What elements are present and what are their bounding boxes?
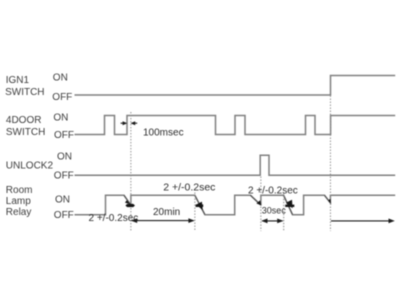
UNLOCK waveform: single pulse at x=260 [75, 155, 396, 175]
Room Lamp Relay waveform with fade-out ramps [75, 195, 396, 214]
20min measurement double arrow [131, 218, 195, 223]
svg-text:SWITCH: SWITCH [6, 127, 45, 138]
fade arrowhead 3 (lamp dim before unlock) [256, 200, 261, 205]
svg-text:OFF: OFF [52, 92, 72, 103]
svg-text:OFF: OFF [54, 210, 74, 221]
svg-text:UNLOCK2: UNLOCK2 [6, 161, 54, 172]
fade arrowhead 2 (lamp dim after 20min) [196, 202, 203, 211]
svg-text:2 +/-0.2sec: 2 +/-0.2sec [89, 213, 139, 224]
svg-text:Room: Room [6, 185, 33, 196]
fade arrowhead 5 (lamp dim cancelled by IGN1) [328, 199, 331, 204]
fade arrowhead 4 (lamp dim after 30sec) [286, 200, 293, 209]
4DOOR waveform: pulses and steps [75, 116, 396, 135]
svg-text:Relay: Relay [6, 207, 32, 218]
svg-text:ON: ON [55, 194, 70, 205]
svg-text:ON: ON [53, 72, 68, 83]
svg-text:2 +/-0.2sec: 2 +/-0.2sec [163, 182, 215, 194]
svg-text:OFF: OFF [54, 170, 74, 181]
dotted reference line at unlock (x=260.8) [260, 177, 262, 232]
svg-text:20min: 20min [153, 207, 180, 218]
continuation time arrow (bottom right) [331, 219, 395, 224]
svg-text:SWITCH: SWITCH [5, 87, 44, 98]
svg-text:Lamp: Lamp [6, 196, 31, 207]
signal label 4DOOR SWITCH [6, 115, 45, 138]
svg-text:ON: ON [57, 152, 72, 163]
100msec measurement arrows (4DOOR row) [121, 121, 138, 125]
svg-text:ON: ON [53, 113, 68, 124]
svg-text:IGN1: IGN1 [6, 75, 30, 86]
svg-text:100msec: 100msec [143, 128, 184, 139]
svg-text:2 +/-0.2sec: 2 +/-0.2sec [248, 185, 298, 196]
30sec measurement double arrow [261, 219, 283, 224]
dotted reference line at door-close+100msec (x=130.8) [130, 112, 132, 231]
fade ramp overlays (darker annotation diagonals) [124, 195, 330, 214]
signal label Room Lamp Relay [6, 185, 33, 218]
dotted reference line at IGN1 on (x=330.4) [329, 96, 331, 232]
fade arrowhead 1 (lamp dim at first door close, meeting arrows at dotted line) [125, 204, 135, 207]
IGN1 waveform: OFF until x=330.5 then ON [75, 76, 396, 96]
svg-text:OFF: OFF [54, 130, 74, 141]
dotted reference line at 20min end (x=194.8) [194, 193, 196, 232]
dotted reference line at 30sec end (x=283.7) [283, 193, 285, 231]
signal label IGN1 SWITCH [5, 75, 44, 98]
svg-text:4DOOR: 4DOOR [6, 115, 42, 126]
svg-text:30sec: 30sec [262, 205, 287, 215]
